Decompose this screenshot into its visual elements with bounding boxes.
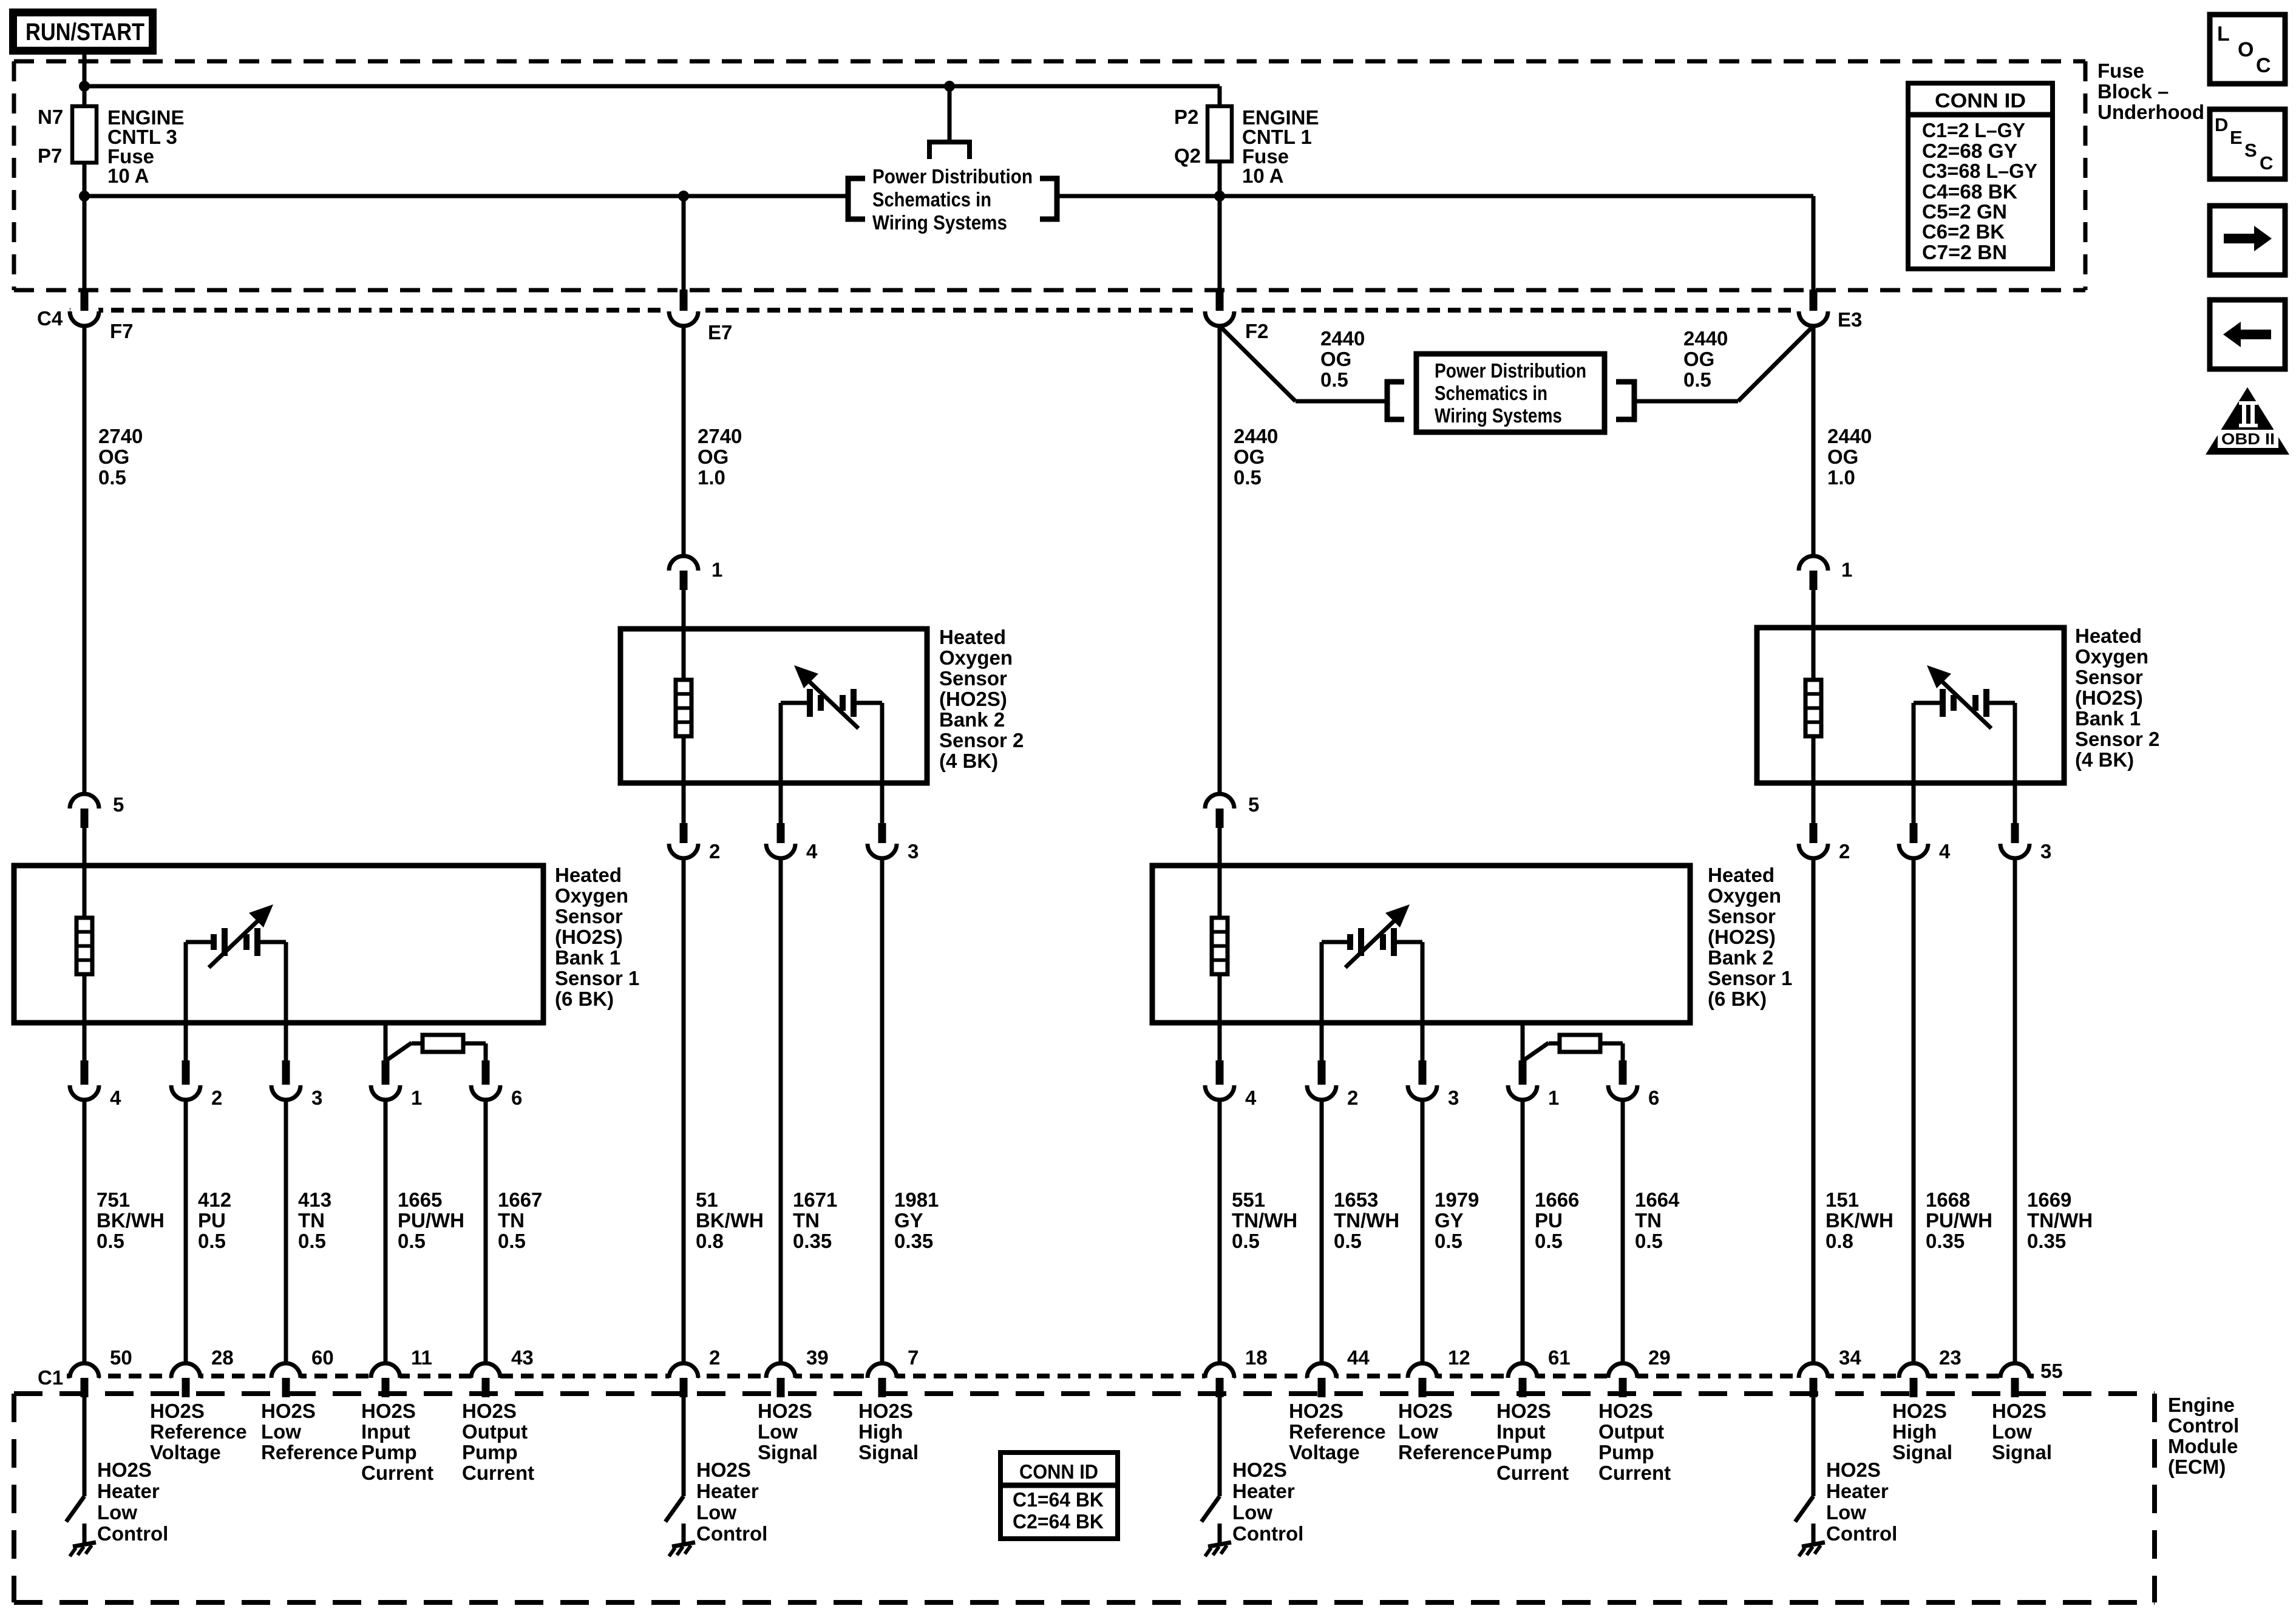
svg-text:4: 4 — [1939, 840, 1951, 863]
label circuit 1664 TN 0.5 — [1635, 1188, 1680, 1252]
svg-text:PU/WH: PU/WH — [1926, 1209, 1992, 1232]
svg-text:Output: Output — [462, 1420, 528, 1443]
svg-text:F2: F2 — [1245, 320, 1269, 342]
sensor cell (B1S1) — [186, 904, 286, 1023]
connector pin 2 — [171, 1060, 200, 1100]
back arrow icon box — [2210, 300, 2285, 369]
ECM pin 2 terminal — [669, 1363, 698, 1397]
svg-text:751: 751 — [97, 1188, 130, 1211]
label ENGINE CNTL 3 Fuse 10 A — [107, 106, 185, 187]
svg-text:Heated: Heated — [555, 864, 622, 886]
wire: F2 diagonal to reference — [1220, 326, 1296, 401]
svg-text:1668: 1668 — [1926, 1188, 1970, 1211]
svg-text:0.5: 0.5 — [198, 1230, 226, 1252]
svg-text:34: 34 — [1839, 1346, 1861, 1369]
connector pin 3 — [1408, 1060, 1437, 1100]
heater element (B1S2) — [1805, 631, 1821, 783]
svg-text:Low: Low — [261, 1420, 301, 1443]
label Heated Oxygen Sensor (HO2S) Bank 1 Sensor 2 (4 BK) — [2075, 625, 2159, 771]
connector pin 3 — [868, 823, 897, 858]
svg-text:CONN ID: CONN ID — [1019, 1460, 1098, 1483]
resistor (B1S1 pump current) — [385, 1035, 486, 1061]
label Fuse Block - Underhood — [2097, 59, 2204, 123]
svg-text:Pump: Pump — [1598, 1441, 1654, 1463]
svg-text:C2=68 GY: C2=68 GY — [1922, 140, 2017, 162]
svg-text:Low: Low — [1992, 1420, 2032, 1443]
label HO2S Heater Low Control (pin 2) — [696, 1459, 767, 1545]
svg-text:Sensor 2: Sensor 2 — [2075, 728, 2159, 750]
svg-text:2: 2 — [709, 840, 720, 863]
label: Power Distribution Schematics in Wiring Systems (top) — [872, 165, 1033, 234]
wire: connector 1 to HO2S B2S2 box — [682, 590, 686, 632]
svg-text:Sensor: Sensor — [555, 905, 623, 927]
svg-text:2440: 2440 — [1234, 425, 1278, 447]
svg-text:2: 2 — [709, 1346, 720, 1369]
svg-text:0.5: 0.5 — [97, 1230, 124, 1252]
svg-text:Control: Control — [97, 1522, 168, 1545]
svg-text:(6 BK): (6 BK) — [555, 988, 614, 1010]
svg-text:Sensor 2: Sensor 2 — [939, 729, 1024, 751]
svg-text:OG: OG — [1827, 446, 1858, 468]
svg-text:Heater: Heater — [97, 1480, 160, 1502]
svg-text:HO2S: HO2S — [858, 1400, 913, 1422]
svg-text:Low: Low — [1232, 1501, 1272, 1524]
wire circuit 1668 PU/WH to ECM pin 23 — [1912, 858, 1916, 1363]
svg-text:HO2S: HO2S — [462, 1400, 517, 1422]
label HO2S Input Pump Current (pin 61) — [1496, 1400, 1569, 1484]
in-line connector pin 1 (E7) — [669, 556, 698, 590]
driver switch + ground (pin 18) — [1201, 1397, 1231, 1556]
HO2S Bank 2 Sensor 1 box — [1152, 866, 1690, 1023]
svg-text:N7: N7 — [38, 106, 63, 128]
svg-text:6: 6 — [1648, 1086, 1659, 1109]
svg-text:1979: 1979 — [1435, 1188, 1479, 1211]
wire: fuse2 down to connector F2 — [1218, 161, 1222, 291]
svg-text:Voltage: Voltage — [1289, 1441, 1360, 1463]
svg-text:TN: TN — [1635, 1209, 1662, 1232]
svg-text:4: 4 — [110, 1086, 121, 1109]
label HO2S Heater Low Control (pin 34) — [1826, 1459, 1897, 1545]
driver switch + ground (pin 50) — [66, 1397, 96, 1556]
label circuit 1666 PU 0.5 — [1535, 1188, 1579, 1252]
svg-text:Low: Low — [696, 1501, 736, 1524]
svg-text:(HO2S): (HO2S) — [2075, 686, 2143, 709]
svg-text:Reference: Reference — [261, 1441, 358, 1463]
svg-text:Input: Input — [1496, 1420, 1546, 1443]
svg-text:P2: P2 — [1174, 106, 1198, 128]
svg-text:Sensor: Sensor — [939, 667, 1007, 690]
svg-text:Block –: Block – — [2097, 80, 2169, 103]
svg-text:Wiring Systems: Wiring Systems — [872, 211, 1007, 234]
bracket left of power distribution box — [1387, 382, 1404, 419]
connector pin 6 — [1608, 1060, 1637, 1100]
svg-text:412: 412 — [198, 1188, 231, 1211]
off-page fork connector (power distribution tap) — [929, 142, 970, 159]
svg-text:(ECM): (ECM) — [2168, 1456, 2226, 1478]
wire circuit 51 BK/WH to ECM pin 2 — [682, 858, 686, 1363]
svg-text:Engine: Engine — [2168, 1394, 2235, 1416]
connector pin 2 — [669, 823, 698, 858]
svg-text:TN/WH: TN/WH — [1334, 1209, 1399, 1232]
wire circuit 412 PU to ECM pin 28 — [184, 1100, 188, 1363]
svg-text:Current: Current — [1496, 1462, 1569, 1484]
sensor cell (B2S1) — [1322, 904, 1422, 1023]
svg-text:0.8: 0.8 — [1826, 1230, 1853, 1252]
svg-text:Sensor 1: Sensor 1 — [1708, 967, 1792, 989]
label HO2S Input Pump Current (pin 11) — [361, 1400, 433, 1484]
svg-text:TN: TN — [793, 1209, 820, 1232]
svg-text:S: S — [2244, 140, 2257, 161]
svg-text:151: 151 — [1826, 1188, 1859, 1211]
fuse block - underhood dashed boundary — [14, 61, 2085, 290]
label HO2S Low Reference (pin 12) — [1398, 1400, 1495, 1463]
wire circuit 1981 GY to ECM pin 7 — [880, 858, 885, 1363]
svg-text:4: 4 — [1245, 1086, 1257, 1109]
svg-text:C6=2 BK: C6=2 BK — [1922, 220, 2005, 243]
svg-text:Heated: Heated — [1708, 864, 1775, 886]
svg-text:551: 551 — [1232, 1188, 1265, 1211]
wires: B2S1 box to pins — [1220, 1023, 1623, 1061]
svg-text:HO2S: HO2S — [97, 1459, 152, 1481]
svg-text:C4: C4 — [37, 307, 63, 330]
node: bus2 junction left — [79, 191, 90, 202]
svg-text:HO2S: HO2S — [361, 1400, 416, 1422]
svg-text:11: 11 — [411, 1346, 432, 1369]
svg-text:(6 BK): (6 BK) — [1708, 988, 1767, 1010]
OBD II icon — [2206, 387, 2289, 455]
label HO2S Output Pump Current (pin 29) — [1598, 1400, 1671, 1484]
svg-text:D: D — [2215, 114, 2228, 135]
heater element (B1S1) — [76, 868, 92, 1023]
wire: connector 5 to HO2S B1S1 box — [83, 828, 87, 868]
ECM pin 18 terminal — [1205, 1363, 1234, 1397]
label circuit 1981 GY 0.35 — [894, 1188, 939, 1252]
RUN/START hot feed box — [13, 13, 153, 51]
connector terminal E7 — [669, 290, 698, 326]
svg-text:GY: GY — [1435, 1209, 1464, 1232]
svg-text:High: High — [1892, 1420, 1937, 1443]
wire: bus1 down to fuse P2 — [1218, 86, 1222, 106]
svg-text:HO2S: HO2S — [1289, 1400, 1343, 1422]
svg-text:0.5: 0.5 — [498, 1230, 526, 1252]
wires: B2S2 box to pins — [684, 783, 882, 824]
label circuit 151 BK/WH 0.8 — [1826, 1188, 1894, 1252]
svg-text:0.5: 0.5 — [98, 466, 126, 489]
svg-text:55: 55 — [2040, 1360, 2063, 1382]
connector pin 2 — [1307, 1060, 1336, 1100]
svg-text:29: 29 — [1648, 1346, 1671, 1369]
svg-text:C: C — [2260, 152, 2273, 174]
svg-text:C5=2 GN: C5=2 GN — [1922, 200, 2007, 223]
wire: E7 drop from bus2 — [682, 196, 686, 291]
connector pin 4 — [1899, 823, 1928, 858]
wire circuit 151 BK/WH to ECM pin 34 — [1812, 858, 1816, 1363]
svg-text:Low: Low — [97, 1501, 137, 1524]
svg-text:Wiring Systems: Wiring Systems — [1435, 404, 1562, 427]
svg-text:Power Distribution: Power Distribution — [1435, 359, 1586, 382]
svg-text:0.35: 0.35 — [894, 1230, 933, 1252]
ECM pin 23 terminal — [1899, 1363, 1928, 1397]
connector pin 3 — [271, 1060, 301, 1100]
svg-text:1.0: 1.0 — [1827, 466, 1855, 489]
svg-text:3: 3 — [311, 1086, 322, 1109]
ECM pin 55 terminal — [2000, 1363, 2029, 1397]
svg-text:HO2S: HO2S — [758, 1400, 812, 1422]
svg-text:1666: 1666 — [1535, 1188, 1579, 1211]
label HO2S Low Reference (pin 60) — [261, 1400, 358, 1463]
svg-text:1: 1 — [411, 1086, 422, 1109]
svg-text:BK/WH: BK/WH — [696, 1209, 764, 1232]
svg-text:Oxygen: Oxygen — [555, 884, 628, 907]
svg-text:OBD II: OBD II — [2221, 430, 2275, 448]
connector pin 4 — [766, 823, 795, 858]
svg-text:0.5: 0.5 — [1334, 1230, 1362, 1252]
label circuit 1669 TN/WH 0.35 — [2027, 1188, 2093, 1252]
label circuit 412 PU 0.5 — [198, 1188, 231, 1252]
svg-text:Underhood: Underhood — [2097, 101, 2204, 123]
svg-text:2: 2 — [211, 1086, 222, 1109]
svg-text:OG: OG — [1234, 446, 1265, 468]
label HO2S Heater Low Control (pin 50) — [97, 1459, 168, 1545]
svg-text:Signal: Signal — [1992, 1441, 2052, 1463]
svg-text:1664: 1664 — [1635, 1188, 1680, 1211]
label circuit 2440 OG 0.5 (F2) — [1234, 425, 1278, 489]
svg-text:PU/WH: PU/WH — [398, 1209, 464, 1232]
svg-text:60: 60 — [311, 1346, 334, 1369]
svg-text:0.5: 0.5 — [1535, 1230, 1563, 1252]
wire: fuse1 to bus2 — [83, 163, 87, 291]
wire circuit 1653 TN/WH to ECM pin 44 — [1320, 1100, 1324, 1363]
svg-text:TN: TN — [298, 1209, 325, 1232]
ECM pin 34 terminal — [1799, 1363, 1828, 1397]
svg-text:Signal: Signal — [1892, 1441, 1952, 1463]
label circuit 2740 OG 1.0 — [698, 425, 742, 489]
svg-text:Input: Input — [361, 1420, 410, 1443]
HO2S Bank 1 Sensor 1 box — [14, 866, 543, 1023]
label HO2S High Signal (pin 7) — [858, 1400, 919, 1463]
svg-text:(HO2S): (HO2S) — [939, 688, 1007, 710]
svg-text:2740: 2740 — [98, 425, 143, 447]
svg-text:0.35: 0.35 — [793, 1230, 832, 1252]
svg-text:10 A: 10 A — [107, 164, 149, 187]
svg-text:Schematics in: Schematics in — [872, 188, 991, 211]
svg-text:Low: Low — [1398, 1420, 1438, 1443]
svg-text:Q2: Q2 — [1174, 144, 1201, 167]
svg-text:3: 3 — [1448, 1086, 1459, 1109]
svg-text:HO2S: HO2S — [696, 1459, 751, 1481]
connector pin 2 — [1799, 823, 1828, 858]
svg-text:6: 6 — [511, 1086, 522, 1109]
DESC icon box — [2210, 109, 2285, 179]
connector C4 terminal F7 — [70, 290, 99, 326]
svg-text:(4 BK): (4 BK) — [939, 750, 998, 772]
bracket left (power distribution reference) — [848, 178, 865, 219]
label circuit 2440 OG 0.5 (left of box) — [1320, 327, 1365, 391]
wire: ignition bus 1 (y=142) — [84, 84, 1220, 89]
svg-text:Output: Output — [1598, 1420, 1664, 1443]
svg-text:Pump: Pump — [361, 1441, 417, 1463]
svg-text:L: L — [2217, 22, 2230, 46]
forward arrow icon box — [2210, 206, 2285, 275]
wire: F2 down to in-line connector 5 — [1218, 326, 1222, 794]
svg-text:High: High — [858, 1420, 903, 1443]
svg-text:Oxygen: Oxygen — [2075, 645, 2148, 668]
svg-text:Sensor 1: Sensor 1 — [555, 967, 639, 989]
connector pin 4 — [70, 1060, 99, 1100]
wire circuit 413 TN to ECM pin 60 — [284, 1100, 288, 1363]
svg-text:Current: Current — [462, 1462, 534, 1484]
label circuit 1653 TN/WH 0.5 — [1334, 1188, 1399, 1252]
label circuit 1671 TN 0.35 — [793, 1188, 837, 1252]
svg-text:Bank 2: Bank 2 — [939, 708, 1005, 731]
svg-text:Control: Control — [2168, 1414, 2239, 1437]
label HO2S High Signal (pin 23) — [1892, 1400, 1952, 1463]
wire circuit 1665 PU/WH to ECM pin 11 — [384, 1100, 388, 1363]
in-line connector pin 5 (F2) — [1205, 794, 1234, 828]
wire circuit 1671 TN to ECM pin 39 — [779, 858, 783, 1363]
svg-text:1: 1 — [1841, 558, 1852, 581]
svg-text:Control: Control — [1232, 1522, 1303, 1545]
connector pin 3 — [2000, 823, 2029, 858]
LOC icon box — [2210, 15, 2285, 84]
wire circuit 1667 TN to ECM pin 43 — [484, 1100, 488, 1363]
wire circuit 751 BK/WH to ECM pin 50 — [83, 1100, 87, 1363]
svg-text:43: 43 — [511, 1346, 534, 1369]
label circuit 751 BK/WH 0.5 — [97, 1188, 165, 1252]
svg-text:Control: Control — [1826, 1522, 1897, 1545]
svg-text:2740: 2740 — [698, 425, 742, 447]
driver switch + ground (pin 2) — [665, 1397, 695, 1556]
svg-text:51: 51 — [696, 1188, 718, 1211]
wire: diagonal up to E3 — [1738, 326, 1813, 401]
wire circuit 551 TN/WH to ECM pin 18 — [1218, 1100, 1222, 1363]
node: bus1 tap junction — [944, 81, 955, 92]
svg-text:413: 413 — [298, 1188, 331, 1211]
svg-text:RUN/START: RUN/START — [25, 19, 144, 46]
wire: horizontal to left bracket — [1296, 399, 1387, 404]
svg-text:HO2S: HO2S — [1892, 1400, 1947, 1422]
svg-text:OG: OG — [698, 446, 729, 468]
wires: B1S2 box to pins — [1813, 783, 2015, 824]
svg-text:Low: Low — [758, 1420, 798, 1443]
node: bus1 junction at fuse N7 — [79, 81, 90, 92]
power distribution reference box — [1416, 354, 1605, 432]
svg-text:(4 BK): (4 BK) — [2075, 748, 2134, 771]
connector pin 6 — [471, 1060, 500, 1100]
svg-text:TN/WH: TN/WH — [1232, 1209, 1297, 1232]
ECM pin 50 terminal — [70, 1363, 99, 1397]
svg-text:Voltage: Voltage — [150, 1441, 221, 1463]
sensor cell (B1S2) — [1914, 665, 2015, 783]
label Engine Control Module (ECM) — [2168, 1394, 2239, 1478]
svg-text:0.5: 0.5 — [1234, 466, 1262, 489]
connector terminal F2 — [1205, 290, 1234, 326]
HO2S Bank 2 Sensor 2 box — [620, 629, 927, 783]
svg-text:HO2S: HO2S — [1598, 1400, 1653, 1422]
svg-text:1671: 1671 — [793, 1188, 837, 1211]
label HO2S Output Pump Current (pin 43) — [462, 1400, 534, 1484]
svg-text:0.5: 0.5 — [1320, 368, 1348, 391]
svg-text:BK/WH: BK/WH — [1826, 1209, 1894, 1232]
svg-text:Reference: Reference — [1398, 1441, 1495, 1463]
svg-text:Power Distribution: Power Distribution — [872, 165, 1033, 188]
label circuit 2740 OG 0.5 — [98, 425, 143, 489]
svg-text:TN: TN — [498, 1209, 525, 1232]
wire: E7 down to in-line connector 1 — [682, 326, 686, 556]
label ENGINE CNTL 1 Fuse 10 A — [1242, 106, 1319, 187]
connector terminal E3 — [1799, 290, 1828, 326]
resistor (B2S1 pump current) — [1523, 1035, 1623, 1061]
node: bus2 junction at F2 — [1214, 191, 1225, 202]
svg-text:23: 23 — [1939, 1346, 1961, 1369]
ECM connector row C1/C2 dashed line — [67, 1374, 2034, 1378]
label HO2S Heater Low Control (pin 18) — [1232, 1459, 1303, 1545]
wire circuit 1669 TN/WH to ECM pin 55 — [2013, 858, 2017, 1363]
ECM pin 12 terminal — [1408, 1363, 1437, 1397]
svg-text:Pump: Pump — [1496, 1441, 1552, 1463]
svg-text:Control: Control — [696, 1522, 767, 1545]
svg-text:2440: 2440 — [1827, 425, 1872, 447]
svg-text:Bank 1: Bank 1 — [2075, 707, 2141, 730]
svg-text:Oxygen: Oxygen — [1708, 884, 1781, 907]
svg-text:18: 18 — [1245, 1346, 1268, 1369]
svg-text:O: O — [2238, 38, 2254, 61]
svg-text:HO2S: HO2S — [261, 1400, 316, 1422]
svg-text:C4=68 BK: C4=68 BK — [1922, 180, 2017, 203]
svg-text:5: 5 — [1248, 793, 1259, 816]
connector row C4 dashed line — [70, 308, 1794, 313]
label HO2S Low Signal (pin 55) — [1992, 1400, 2052, 1463]
wire: right bracket horizontal — [1634, 399, 1738, 404]
ECM pin 60 terminal — [271, 1363, 301, 1397]
svg-text:Low: Low — [1826, 1501, 1866, 1524]
svg-text:Pump: Pump — [462, 1441, 518, 1463]
svg-text:7: 7 — [908, 1346, 919, 1369]
svg-text:1: 1 — [712, 558, 722, 581]
svg-text:Reference: Reference — [150, 1420, 247, 1443]
ECM pin 39 terminal — [766, 1363, 795, 1397]
label Heated Oxygen Sensor (HO2S) Bank 1 Sensor 1 (6 BK) — [555, 864, 639, 1010]
wire: connector 1 to HO2S B1S2 box — [1812, 590, 1816, 631]
CONN ID table (fuse block) — [1908, 83, 2053, 269]
svg-text:1981: 1981 — [894, 1188, 939, 1211]
svg-text:E7: E7 — [708, 321, 732, 344]
svg-text:12: 12 — [1448, 1346, 1470, 1369]
svg-text:C2=64 BK: C2=64 BK — [1013, 1510, 1104, 1533]
label circuit 1979 GY 0.5 — [1435, 1188, 1479, 1252]
wire circuit 1664 TN to ECM pin 29 — [1621, 1100, 1625, 1363]
svg-text:F7: F7 — [110, 320, 134, 342]
label circuit 1665 PU/WH 0.5 — [398, 1188, 464, 1252]
wire: E3 down to in-line connector 1 — [1812, 326, 1816, 556]
svg-text:0.5: 0.5 — [298, 1230, 326, 1252]
svg-text:0.5: 0.5 — [1435, 1230, 1462, 1252]
wire: bus 2 right segment — [1057, 194, 1813, 198]
svg-text:Current: Current — [1598, 1462, 1671, 1484]
svg-text:CONN ID: CONN ID — [1935, 89, 2026, 112]
svg-text:TN/WH: TN/WH — [2027, 1209, 2093, 1232]
svg-text:10 A: 10 A — [1242, 164, 1283, 187]
svg-text:C1=2 L–GY: C1=2 L–GY — [1922, 119, 2025, 141]
svg-text:OG: OG — [1683, 348, 1714, 370]
ECM pin 44 terminal — [1307, 1363, 1336, 1397]
svg-text:2440: 2440 — [1683, 327, 1728, 350]
svg-text:E: E — [2230, 127, 2243, 148]
svg-text:1665: 1665 — [398, 1188, 442, 1211]
label Heated Oxygen Sensor (HO2S) Bank 2 Sensor 1 (6 BK) — [1708, 864, 1792, 1010]
svg-text:0.35: 0.35 — [2027, 1230, 2066, 1252]
svg-text:Heater: Heater — [1826, 1480, 1889, 1502]
